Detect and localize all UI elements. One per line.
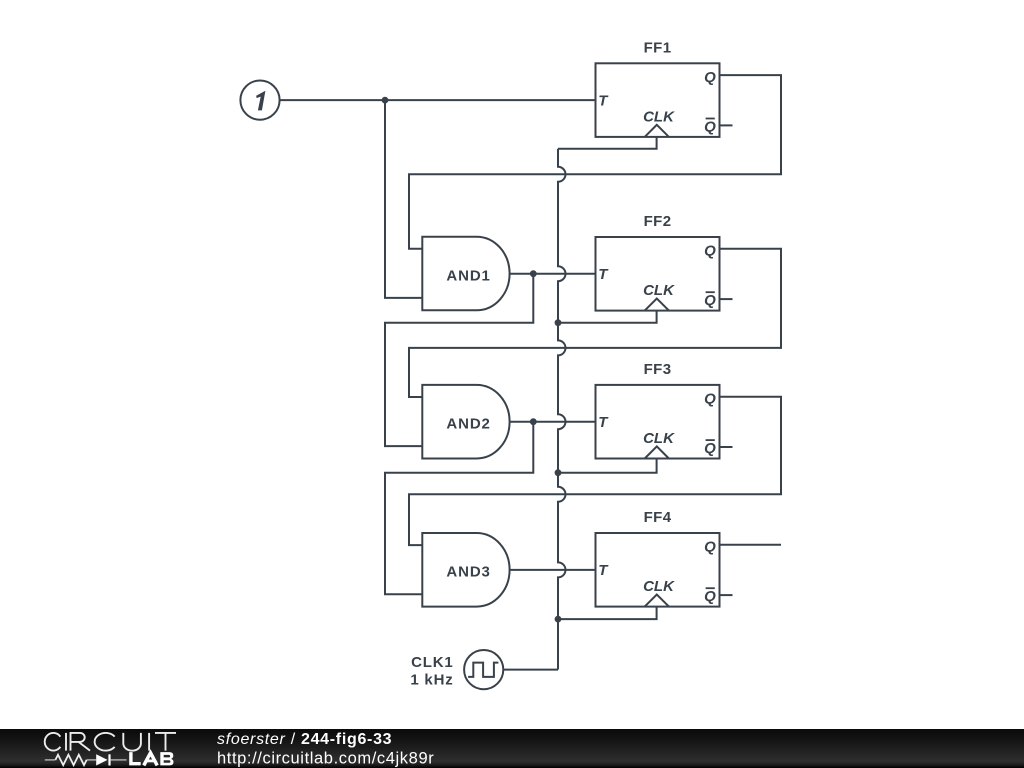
svg-text:AND1: AND1 bbox=[446, 267, 490, 284]
svg-text:http://circuitlab.com/c4jk89r: http://circuitlab.com/c4jk89r bbox=[217, 750, 434, 768]
svg-text:FF2: FF2 bbox=[644, 213, 672, 230]
svg-text:sfoerster / 244-fig6-33: sfoerster / 244-fig6-33 bbox=[217, 731, 392, 748]
svg-text:FF3: FF3 bbox=[644, 361, 672, 378]
svg-text:1 kHz: 1 kHz bbox=[410, 672, 453, 689]
svg-text:CLK1: CLK1 bbox=[411, 654, 453, 671]
svg-text:AND2: AND2 bbox=[446, 416, 490, 433]
svg-text:AND3: AND3 bbox=[446, 564, 490, 581]
svg-text:FF1: FF1 bbox=[644, 40, 672, 57]
svg-text:FF4: FF4 bbox=[644, 509, 672, 526]
